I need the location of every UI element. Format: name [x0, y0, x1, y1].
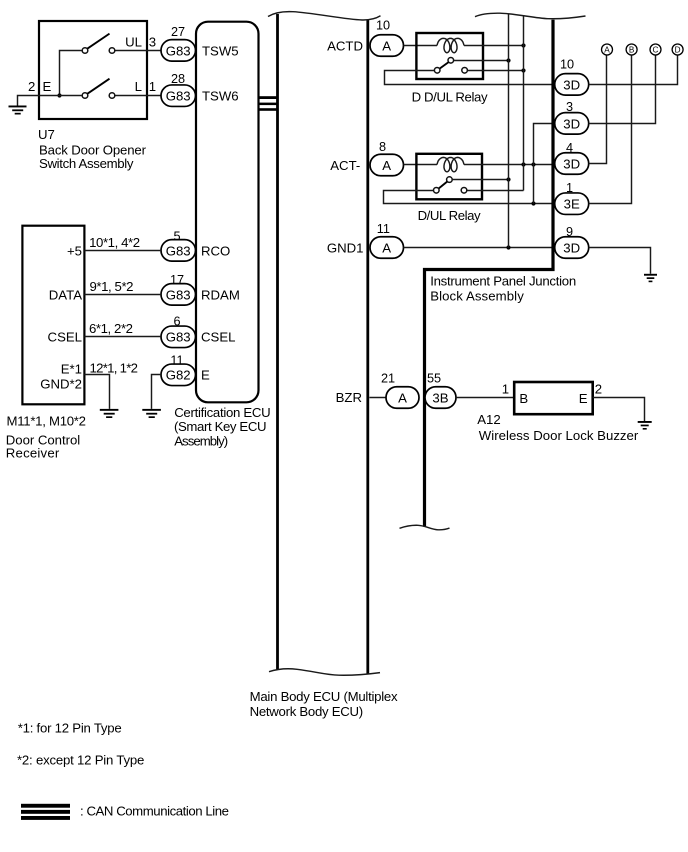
svg-text:Receiver: Receiver: [6, 446, 60, 461]
svg-text:Switch Assembly: Switch Assembly: [39, 156, 134, 171]
svg-text:Back Door Opener: Back Door Opener: [39, 142, 147, 157]
svg-text:CSEL: CSEL: [201, 330, 235, 345]
junction dot GND1 bus: [506, 245, 510, 249]
svg-text:A: A: [398, 390, 407, 405]
svg-text:17: 17: [170, 273, 184, 287]
wire 3E pin 1 to node B: [589, 55, 632, 204]
D D/UL relay coil output wire: [464, 45, 524, 47]
svg-text:*1: for 12 Pin Type: *1: for 12 Pin Type: [18, 721, 122, 736]
wire ACT- to relay coil: [404, 164, 438, 166]
wire 3D pin 10 to node D: [589, 55, 678, 85]
wire ACTD to relay coil: [404, 45, 438, 47]
svg-text:G83: G83: [166, 89, 191, 104]
instrument panel junction block boundary: [425, 20, 554, 527]
svg-text:21: 21: [381, 371, 395, 385]
svg-text:TSW6: TSW6: [202, 89, 239, 104]
connector G83 pin 6: [161, 326, 196, 348]
svg-text:G83: G83: [166, 243, 191, 258]
svg-text:*2: except 12 Pin Type: *2: except 12 Pin Type: [17, 753, 144, 768]
svg-text:M11*1, M10*2: M11*1, M10*2: [7, 414, 87, 429]
svg-text:55: 55: [427, 371, 441, 385]
svg-text:4: 4: [566, 141, 573, 155]
svg-text:3D: 3D: [563, 240, 580, 255]
junction dot pivot to GND bus: [506, 58, 510, 62]
switch L lever: [87, 79, 109, 94]
svg-text:E: E: [579, 391, 588, 406]
svg-text:1: 1: [149, 79, 156, 94]
D D/UL relay coil: [437, 38, 464, 52]
D D/UL relay common wire to 3D pin 10: [385, 71, 555, 85]
wire +5 to G83 pin 5: [84, 250, 161, 252]
junction block torn top: [475, 13, 586, 19]
wire UL switch to pin 3: [115, 50, 161, 52]
connector 3E pin 1: [555, 193, 589, 215]
svg-text:RDAM: RDAM: [201, 287, 240, 302]
internal wire linking both switches: [60, 51, 83, 96]
junction dot E node: [57, 93, 61, 97]
connector G82 pin 11: [161, 364, 196, 386]
D D/UL relay pivot contact: [448, 58, 454, 64]
connector 3D pin 9: [555, 237, 589, 259]
svg-text:+5: +5: [67, 243, 82, 258]
D D/UL relay lever: [440, 62, 449, 69]
svg-text:2: 2: [595, 381, 602, 396]
svg-text:U7: U7: [38, 127, 55, 142]
U7 back door opener switch assembly box: [39, 21, 147, 119]
switch UL contact circles: [82, 48, 88, 54]
svg-text:6*1, 2*2: 6*1, 2*2: [89, 321, 133, 336]
main body ECU right edge: [366, 20, 369, 674]
svg-text:: CAN Communication Line: : CAN Communication Line: [80, 803, 229, 818]
svg-text:C: C: [653, 45, 659, 54]
svg-text:UL: UL: [125, 35, 142, 50]
svg-text:12*1, 1*2: 12*1, 1*2: [90, 361, 139, 376]
svg-text:GND*2: GND*2: [40, 376, 82, 391]
D/UL relay coil output wire to 3D pin 4: [464, 164, 555, 166]
ground buzzer: [638, 421, 652, 430]
svg-text:3D: 3D: [563, 116, 580, 131]
D/UL relay box: [416, 154, 482, 200]
svg-text:E*1: E*1: [61, 361, 82, 376]
svg-text:10: 10: [376, 19, 390, 33]
D D/UL relay common contact: [434, 68, 440, 74]
wireless door lock buzzer box: [514, 382, 593, 414]
svg-text:1: 1: [502, 381, 509, 396]
connector A pin 11: [370, 237, 404, 259]
svg-text:GND1: GND1: [327, 240, 364, 255]
connector 3D pin 10: [555, 74, 589, 96]
main body ECU left edge: [276, 14, 279, 669]
D/UL relay pivot wire: [452, 179, 508, 181]
node C: [650, 44, 661, 55]
svg-text:B: B: [629, 45, 635, 54]
svg-text:D: D: [675, 45, 681, 54]
svg-text:D/UL Relay: D/UL Relay: [418, 208, 481, 223]
junction dot coil to bus: [521, 43, 525, 47]
svg-text:Network Body ECU): Network Body ECU): [250, 704, 364, 719]
ground receiver E: [100, 409, 119, 418]
svg-text:10*1, 4*2: 10*1, 4*2: [89, 235, 140, 250]
svg-text:1: 1: [566, 181, 573, 195]
node A: [602, 44, 613, 55]
svg-text:A12: A12: [477, 412, 500, 427]
D/UL relay NO contact wire to bus: [467, 190, 524, 192]
svg-text:BZR: BZR: [336, 390, 362, 405]
wire 3D pin 4 to node A: [589, 55, 607, 164]
D/UL relay pivot contact: [447, 177, 453, 183]
svg-text:Assembly): Assembly): [174, 434, 228, 449]
connector G83 pin 17: [161, 284, 196, 306]
svg-text:E: E: [43, 79, 52, 94]
ground 3D pin 9: [644, 274, 657, 282]
junction block torn bottom: [400, 525, 450, 530]
svg-text:10: 10: [560, 57, 574, 71]
wire BZR to connector A pin 21: [369, 397, 386, 399]
svg-text:3D: 3D: [563, 77, 580, 92]
wire DATA to G83 pin 17: [84, 294, 161, 296]
D/UL relay lever: [439, 182, 448, 189]
connector A pin 21: [386, 387, 419, 409]
D/UL relay NO contact: [461, 188, 467, 194]
junction dot 3E line to 3D pin 3 link: [531, 201, 535, 205]
connector 3D pin 3: [555, 113, 589, 134]
svg-text:(Smart Key ECU: (Smart Key ECU: [174, 419, 267, 434]
wire 3D pin 9 to ground: [589, 248, 651, 274]
wire 3B pin 55 to buzzer: [456, 397, 514, 399]
wire 3D pin 3 to node C: [589, 55, 656, 124]
svg-text:3D: 3D: [563, 156, 580, 171]
svg-text:TSW5: TSW5: [202, 43, 239, 58]
svg-text:A: A: [382, 158, 391, 173]
svg-text:CSEL: CSEL: [48, 330, 82, 345]
svg-text:RCO: RCO: [201, 243, 230, 258]
svg-text:11: 11: [377, 222, 390, 236]
svg-text:G83: G83: [166, 43, 191, 58]
svg-text:A: A: [382, 38, 391, 53]
connector A pin 8: [370, 154, 404, 176]
svg-text:Main Body ECU (Multiplex: Main Body ECU (Multiplex: [250, 689, 398, 704]
certification ECU box: [196, 22, 259, 403]
D D/UL relay NO contact: [462, 68, 468, 74]
wire CSEL to G83 pin 6: [84, 336, 161, 338]
svg-text:Wireless Door Lock Buzzer: Wireless Door Lock Buzzer: [479, 428, 639, 443]
svg-text:A: A: [382, 240, 391, 255]
svg-text:ACTD: ACTD: [327, 38, 363, 53]
junction dot coil to bus: [521, 162, 525, 166]
door control receiver box: [22, 226, 84, 405]
main body ECU torn top: [268, 12, 381, 20]
vertical bus wire to GND1: [508, 14, 510, 248]
D D/UL relay box: [416, 33, 483, 79]
ground U7: [9, 106, 27, 115]
main body ECU torn bottom: [269, 669, 380, 675]
switch L contact circles: [82, 93, 88, 99]
svg-text:28: 28: [171, 72, 185, 86]
connector G83 pin 27: [161, 40, 196, 62]
D/UL relay common contact: [434, 188, 440, 194]
svg-text:5: 5: [173, 230, 180, 244]
svg-text:E: E: [201, 368, 210, 383]
svg-text:G83: G83: [166, 330, 191, 345]
svg-text:DATA: DATA: [49, 287, 82, 302]
svg-text:Instrument Panel Junction: Instrument Panel Junction: [430, 273, 576, 288]
svg-text:9*1, 5*2: 9*1, 5*2: [90, 279, 134, 294]
svg-text:3: 3: [149, 35, 156, 50]
connector G83 pin 28: [161, 85, 196, 107]
D D/UL relay NO contact wire: [467, 70, 523, 72]
wire buzzer E to ground: [593, 398, 645, 422]
svg-text:ACT-: ACT-: [330, 158, 360, 173]
D D/UL relay pivot wire: [454, 60, 509, 62]
svg-text:G83: G83: [166, 287, 191, 302]
svg-text:L: L: [135, 79, 142, 94]
switch UL lever: [87, 34, 109, 49]
junction dot coil to 3D pin 3 link: [531, 162, 535, 166]
connector A pin 10: [370, 35, 404, 57]
svg-text:A: A: [604, 45, 610, 54]
CAN legend symbol: [21, 804, 70, 820]
wire pin 2 E to ground: [18, 96, 83, 106]
svg-text:D D/UL Relay: D D/UL Relay: [412, 90, 488, 105]
node B: [626, 44, 637, 55]
connector 3D pin 4: [555, 153, 589, 175]
svg-text:2: 2: [28, 79, 35, 94]
vertical bus wire to coils and contacts: [523, 15, 525, 191]
svg-text:B: B: [519, 391, 528, 406]
wire GND1 to 3D pin 9: [404, 247, 555, 249]
svg-text:Block Assembly: Block Assembly: [430, 289, 524, 304]
svg-text:6: 6: [173, 315, 180, 329]
junction dot pivot to GND bus: [506, 177, 510, 181]
wire L switch to pin 1: [115, 95, 161, 97]
svg-text:G82: G82: [166, 368, 191, 383]
svg-text:Certification ECU: Certification ECU: [174, 405, 271, 420]
connector 3B pin 55: [425, 387, 456, 409]
wire E to ground: [84, 375, 109, 409]
node D: [672, 44, 683, 55]
svg-text:3B: 3B: [432, 390, 448, 405]
ground certification ECU E: [142, 409, 161, 418]
wire G82 E to ground: [152, 375, 162, 409]
junction dot NO contact to bus: [521, 68, 525, 72]
svg-text:8: 8: [379, 140, 386, 154]
CAN communication line stub (triple bar): [259, 96, 278, 111]
svg-text:3: 3: [566, 100, 573, 114]
svg-text:9: 9: [566, 225, 573, 239]
connector G83 pin 5: [161, 240, 196, 262]
svg-text:11: 11: [170, 354, 183, 368]
svg-text:3E: 3E: [564, 197, 580, 212]
link wire 3D pin 3 down to coil line: [534, 124, 555, 204]
svg-text:27: 27: [171, 25, 185, 39]
D/UL relay common wire to 3E pin 1: [384, 191, 555, 204]
D/UL relay coil: [437, 157, 464, 171]
